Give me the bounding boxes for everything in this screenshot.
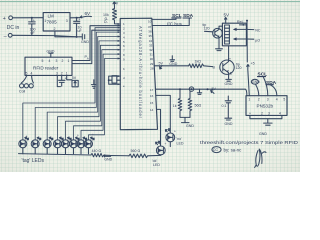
wire U1 pin2 to gnd rail	[55, 31, 77, 37]
wire Q1 emitter to ground	[216, 39, 223, 51]
ground below R2 R3	[180, 117, 194, 128]
node gnd rail	[76, 36, 78, 38]
wire relay NO	[246, 38, 253, 40]
wire 5V rail right	[246, 20, 248, 62]
relay K1	[222, 20, 246, 46]
NFC module U4 PN532	[246, 96, 287, 116]
antenna coil L1	[19, 75, 34, 93]
LED D2	[31, 137, 41, 154]
ground G1	[77, 34, 90, 44]
wire bus pin7 to LED6	[74, 50, 121, 140]
node R3 top (circled junction)	[189, 87, 193, 91]
paper background	[0, 0, 300, 172]
wire 5V feed U2 to PN532 pin1	[156, 89, 247, 96]
terminal + DC in	[3, 16, 13, 22]
resistor R1 10k pull-up	[103, 2, 120, 24]
wire bus pin9 to LED8	[89, 59, 121, 140]
ground near U3 pin3	[57, 75, 96, 88]
U2 left pin arrowheads	[118, 23, 121, 85]
wire to R6	[110, 155, 129, 157]
wire bus pin3 to LED2	[35, 32, 120, 140]
ground at U2 right pin	[169, 56, 177, 66]
LED D5	[62, 137, 72, 154]
label 5V near PN532 feed	[211, 87, 217, 93]
attribution handwriting	[200, 140, 299, 152]
regulator U1 LM7805	[43, 13, 70, 31]
transistor Q2 TIP120	[213, 57, 242, 75]
capacitor C4 beside U4	[222, 96, 232, 120]
ground U3 pin4 top	[47, 50, 55, 58]
LED D7	[77, 137, 87, 154]
capacitor C2 10uF	[74, 18, 83, 37]
U2 left pin numbers	[123, 22, 125, 88]
node + rail / C1	[31, 17, 33, 19]
LED D4	[54, 137, 64, 154]
RFID reader U3	[25, 57, 72, 75]
wire RFID RX riser	[72, 30, 120, 63]
wire bus pin5 to LED4	[58, 41, 121, 140]
U4 bottom strap	[250, 115, 282, 125]
node GND tap	[104, 154, 106, 156]
label 5V relay supply	[240, 24, 247, 26]
wire bus pin2 to LED1	[23, 28, 121, 140]
LED D3	[43, 137, 53, 154]
wire SDA net from U2	[152, 18, 189, 26]
LED row D1-D8	[19, 137, 94, 154]
5V arrow into U4 pin1	[247, 61, 255, 95]
resistor R3 560 pulldown	[188, 91, 201, 117]
wire SCL net from U2	[152, 18, 176, 20]
LED D8	[85, 137, 95, 154]
plus marks near LEDs	[26, 130, 177, 146]
transistor Q1 TIP120	[203, 23, 223, 39]
wire relay NC	[246, 28, 253, 30]
LED D1	[19, 137, 29, 154]
terminal - DC in	[4, 33, 13, 39]
wire LED cathode bus	[19, 154, 92, 155]
5V arrow top right	[224, 13, 231, 24]
LED D10 'no'	[165, 129, 183, 147]
GND oval into U4 pin2	[251, 79, 260, 95]
label SCL	[172, 13, 182, 19]
signature	[255, 149, 266, 167]
wire - rail	[12, 35, 76, 37]
resistor R4 1k base	[189, 59, 213, 67]
5V source for U3 pin1	[67, 75, 79, 86]
wire + rail	[13, 17, 44, 19]
label GND bottom	[104, 155, 112, 161]
5V label at U2 right pin	[159, 62, 164, 69]
wire Q2 collector to relay	[228, 46, 230, 58]
wire U2 to R4	[154, 65, 189, 67]
crystal X1	[108, 76, 121, 85]
ground tap on 5V run	[197, 89, 201, 94]
CC mark	[212, 147, 221, 153]
wire U2 to 'ok' LED	[157, 109, 161, 145]
capacitor C3 on U3 pin2	[59, 75, 67, 86]
node R2 top	[179, 88, 181, 90]
node 6V	[76, 17, 78, 19]
MCU U2 ATMega328	[120, 18, 157, 130]
wire RFID TX riser	[72, 26, 120, 61]
ground Q2 emitter	[225, 76, 233, 86]
label SDA bold	[266, 80, 277, 96]
label SDA	[183, 13, 194, 19]
wire Q1 collector to relay pin	[219, 26, 222, 28]
resistor R5 440ohm	[91, 149, 110, 157]
U2 right pin numbers	[148, 20, 154, 112]
label 6V	[80, 11, 92, 18]
wire bus pin6 to LED5	[66, 45, 121, 140]
node 5V run	[207, 88, 209, 90]
resistor R2 1k pulldown	[173, 89, 182, 117]
resistor R6 560ohm	[129, 149, 161, 157]
wire U2 to 'no' LED	[156, 95, 170, 132]
wire bus pin4 to LED3	[47, 37, 120, 140]
wire U1 pin3 output	[70, 17, 80, 19]
top margin rule of the graph paper	[0, 1, 300, 3]
label SCL bold	[258, 72, 268, 96]
capacitor C1 100uF	[29, 18, 36, 36]
wire bus pin8 to LED7	[81, 54, 120, 140]
LED D6	[70, 137, 80, 154]
LED D9 'ok'	[152, 141, 165, 167]
